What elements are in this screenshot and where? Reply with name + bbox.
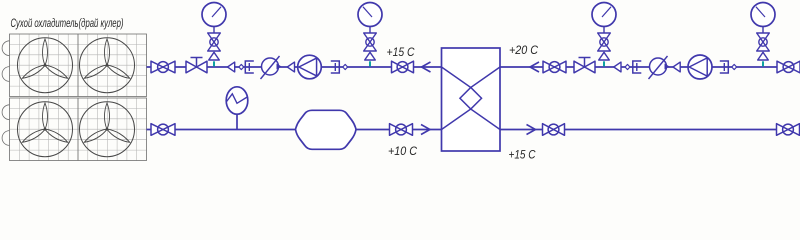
- svg-text:+15 С: +15 С: [509, 148, 536, 162]
- svg-text:Сухой охладитель(драй кулер): Сухой охладитель(драй кулер): [11, 18, 124, 30]
- svg-text:+15 С: +15 С: [387, 45, 415, 59]
- svg-text:+10 С: +10 С: [388, 144, 417, 158]
- svg-text:+20 С: +20 С: [509, 43, 538, 57]
